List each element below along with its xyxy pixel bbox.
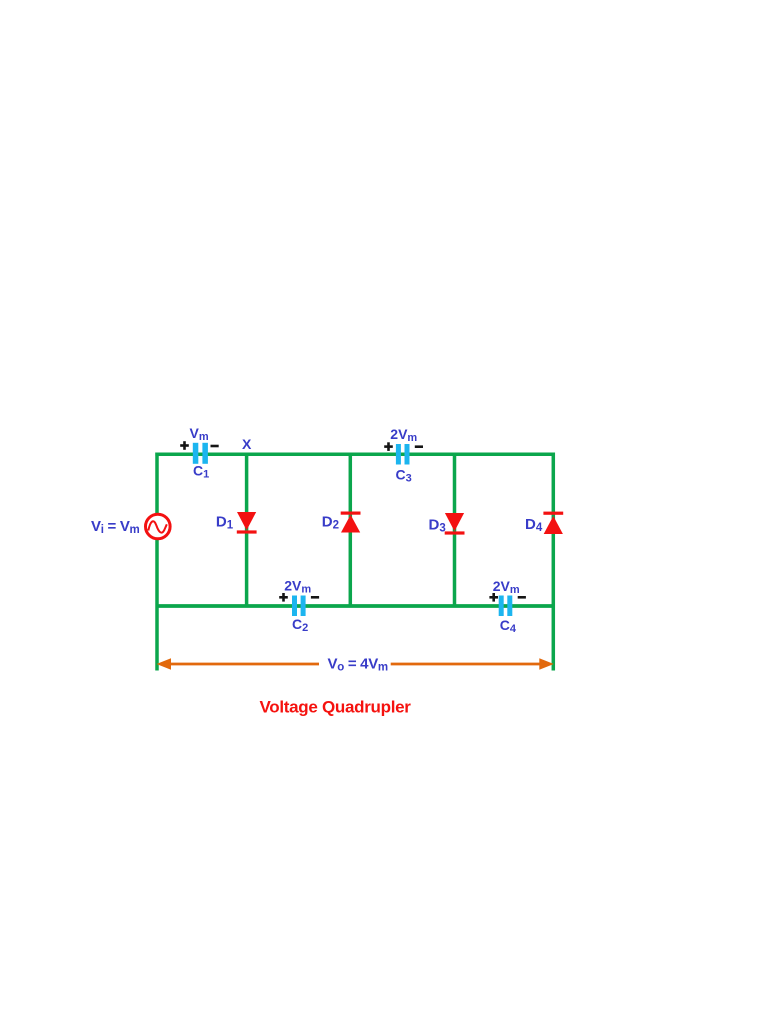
wire: branch D3	[453, 454, 457, 606]
C4 minus sign	[518, 596, 526, 599]
diode D2	[341, 512, 361, 533]
svg-text:D2: D2	[322, 514, 339, 532]
C2 plus sign	[279, 593, 288, 602]
capacitor C3 plates	[396, 444, 410, 465]
svg-text:X: X	[242, 436, 252, 452]
capacitor C4 plates	[499, 596, 513, 617]
diode D1	[237, 512, 257, 534]
ac source V1	[146, 514, 171, 539]
C3 plus sign	[384, 442, 393, 451]
C2 minus sign	[311, 596, 319, 599]
svg-text:Vo = 4Vm: Vo = 4Vm	[328, 656, 388, 674]
output span arrow (right segment)	[391, 658, 554, 670]
capacitor C2 plates	[292, 596, 306, 617]
svg-text:2Vm: 2Vm	[284, 578, 311, 596]
output span arrow (left segment)	[157, 658, 320, 670]
capacitor C1 plates	[193, 443, 208, 464]
svg-text:C3: C3	[396, 467, 412, 485]
svg-text:D1: D1	[216, 513, 234, 531]
wire: right vertical	[552, 453, 556, 671]
diode D4	[543, 512, 563, 534]
diode D3	[445, 513, 465, 535]
C1 minus sign	[211, 445, 219, 448]
C1 plus sign	[180, 441, 189, 450]
svg-text:2Vm: 2Vm	[493, 578, 520, 596]
svg-text:Voltage Quadrupler: Voltage Quadrupler	[260, 697, 412, 716]
wire: bottom bus	[156, 604, 554, 608]
C4 plus sign	[489, 593, 498, 602]
svg-text:2Vm: 2Vm	[390, 426, 417, 444]
wire: branch D1	[245, 454, 249, 606]
wire: top bus	[155, 452, 555, 456]
wire: left vertical	[155, 453, 159, 671]
svg-text:D3: D3	[429, 517, 446, 535]
svg-text:Vi = Vm: Vi = Vm	[91, 518, 140, 536]
svg-text:D4: D4	[525, 516, 543, 534]
svg-text:C2: C2	[292, 616, 308, 634]
wire: branch D2	[349, 454, 353, 606]
svg-text:C4: C4	[500, 617, 517, 635]
svg-text:Vm: Vm	[190, 425, 209, 443]
C3 minus sign	[415, 445, 423, 448]
svg-text:C1: C1	[193, 463, 209, 481]
